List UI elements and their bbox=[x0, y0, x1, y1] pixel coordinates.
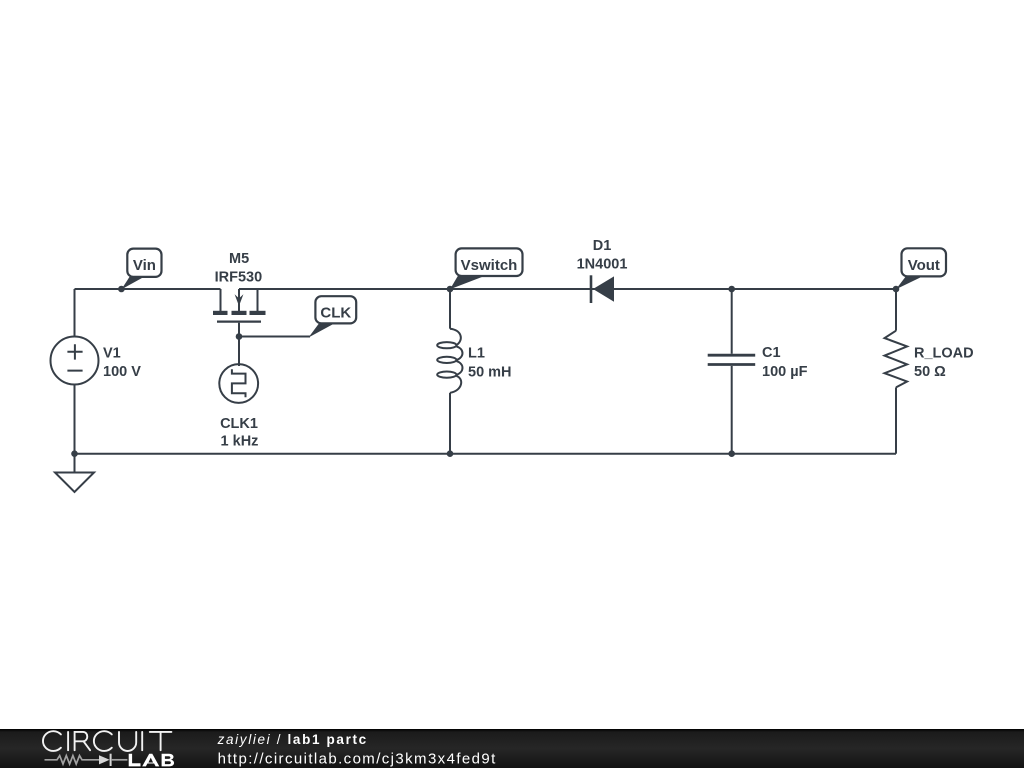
node C1 bottom junction bbox=[728, 450, 735, 457]
label C1 value bbox=[762, 345, 808, 380]
wire gate to CLK flag bbox=[239, 336, 310, 338]
capacitor C1 bbox=[708, 289, 756, 454]
svg-text:V1: V1 bbox=[103, 345, 121, 361]
ground bbox=[55, 454, 94, 492]
svg-text:IRF530: IRF530 bbox=[215, 269, 263, 285]
node junction gate bbox=[236, 333, 243, 340]
label M5 bbox=[215, 251, 263, 285]
svg-text:C1: C1 bbox=[762, 345, 781, 361]
resistor R_LOAD bbox=[885, 289, 908, 454]
logo squiggle resistor bbox=[45, 756, 128, 764]
svg-text:1N4001: 1N4001 bbox=[577, 257, 628, 273]
svg-text:D1: D1 bbox=[593, 238, 612, 254]
label V1 value bbox=[103, 345, 141, 380]
node ground junction bbox=[71, 450, 78, 457]
svg-text:100 V: 100 V bbox=[103, 364, 141, 380]
node L1 bottom junction bbox=[447, 450, 454, 457]
label D1 value bbox=[577, 238, 628, 273]
svg-text:Vout: Vout bbox=[908, 257, 940, 274]
flag Vswitch bbox=[450, 248, 523, 289]
svg-text:Vswitch: Vswitch bbox=[461, 257, 518, 274]
svg-text:100 µF: 100 µF bbox=[762, 364, 808, 380]
logo LAB bbox=[129, 754, 174, 767]
wire top rail right segment bbox=[239, 288, 896, 290]
node junction dots bbox=[71, 286, 899, 457]
label L1 value bbox=[468, 345, 512, 380]
node C1 top junction bbox=[728, 286, 735, 293]
svg-text:CLK: CLK bbox=[320, 304, 351, 321]
svg-text:50 Ω: 50 Ω bbox=[914, 364, 946, 380]
svg-text:http://circuitlab.com/cj3km3x4: http://circuitlab.com/cj3km3x4fed9t bbox=[218, 750, 497, 767]
transistor M5 bbox=[213, 289, 266, 366]
svg-text:50 mH: 50 mH bbox=[468, 364, 512, 380]
diode D1 bbox=[591, 275, 614, 303]
logo CIRCUIT lettering bbox=[43, 731, 171, 751]
node Vout junction bbox=[893, 286, 900, 293]
flag Vin bbox=[121, 249, 161, 290]
label CLK1 value bbox=[220, 416, 258, 449]
svg-text:1 kHz: 1 kHz bbox=[221, 433, 259, 449]
voltage source V1 bbox=[51, 337, 99, 385]
node Vswitch junction bbox=[447, 286, 454, 293]
wire top rail left segment bbox=[75, 288, 221, 290]
clock source CLK1 bbox=[219, 364, 258, 403]
flag CLK bbox=[309, 296, 357, 337]
svg-text:L1: L1 bbox=[468, 345, 485, 361]
label R_LOAD value bbox=[914, 345, 974, 380]
inductor L1 bbox=[437, 289, 462, 454]
logo squiggle diode bbox=[99, 754, 112, 766]
wire V1 top lead bbox=[74, 289, 76, 337]
node Vin junction bbox=[118, 286, 125, 293]
svg-text:CLK1: CLK1 bbox=[220, 416, 258, 432]
svg-text:Vin: Vin bbox=[133, 257, 156, 274]
svg-text:zaiyliei / lab1 partc: zaiyliei / lab1 partc bbox=[217, 732, 368, 747]
svg-text:R_LOAD: R_LOAD bbox=[914, 345, 974, 361]
wire bottom rail bbox=[75, 453, 897, 455]
wire V1 bottom lead bbox=[74, 385, 76, 454]
svg-text:M5: M5 bbox=[229, 251, 249, 267]
flag Vout bbox=[896, 248, 946, 289]
